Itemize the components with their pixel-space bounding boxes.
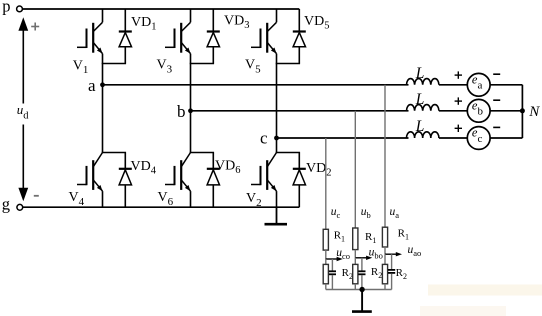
label VD3 bbox=[224, 13, 249, 31]
label V4 bbox=[69, 190, 85, 208]
wire: phase c to source bbox=[439, 137, 467, 139]
capacitor (phase c filter) bbox=[329, 259, 336, 290]
label L (phase b) bbox=[415, 91, 425, 108]
wire: phase b sense tap bbox=[354, 111, 356, 229]
label + (source eb) bbox=[455, 97, 462, 104]
wire: R1 to junction (phase c) bbox=[325, 250, 327, 259]
svg-text:R2: R2 bbox=[396, 267, 407, 281]
source ea (back-EMF) bbox=[467, 73, 490, 96]
label V6 bbox=[158, 190, 174, 208]
transistor V1 (upper IGBT leg a) bbox=[77, 9, 103, 64]
label R1 (phase b) bbox=[365, 231, 376, 245]
wire: source eb to neutral bus bbox=[490, 110, 522, 112]
svg-text:p: p bbox=[2, 0, 10, 15]
wire: phase b line bbox=[191, 110, 409, 112]
svg-text:V4: V4 bbox=[69, 190, 85, 208]
node c junction bbox=[274, 136, 279, 141]
label u_c bbox=[331, 206, 341, 220]
wire: emitter-anode link upper leg a bbox=[102, 63, 126, 65]
wire: phase a sense tap bbox=[384, 85, 386, 229]
resistor R2 (phase c lower divider) bbox=[323, 259, 328, 290]
inductor L (phase b) bbox=[407, 105, 439, 111]
wire: collector-cathode link lower leg c bbox=[276, 152, 300, 154]
svg-text:N: N bbox=[528, 104, 540, 120]
label + (source ea) bbox=[455, 71, 462, 78]
transistor V4 (lower IGBT leg a) bbox=[77, 153, 103, 208]
wire: phase b to source bbox=[439, 110, 467, 112]
label u_bo bbox=[369, 247, 383, 261]
ground (DC bus negative) bbox=[265, 207, 288, 224]
svg-text:VD6: VD6 bbox=[215, 158, 240, 176]
label R2 (phase b) bbox=[371, 266, 382, 280]
wire: leg b vertical (phase column) bbox=[190, 64, 192, 153]
svg-text:ub: ub bbox=[361, 206, 371, 220]
label N bbox=[528, 104, 540, 120]
svg-text:R1: R1 bbox=[334, 230, 345, 244]
capacitor (phase a filter) bbox=[388, 254, 395, 289]
label VD1 bbox=[131, 15, 156, 33]
wire: emitter-anode link upper leg b bbox=[190, 63, 214, 65]
label VD4 bbox=[131, 159, 157, 177]
terminal g circle bbox=[17, 204, 23, 210]
transistor V5 (upper IGBT leg c) bbox=[251, 9, 277, 64]
wire: collector-cathode link lower leg b bbox=[190, 152, 214, 154]
diode VD5 (upper freewheel leg c) bbox=[293, 9, 306, 64]
wire: phase a to source bbox=[439, 84, 467, 86]
wire: top DC rail (+) bbox=[22, 8, 299, 10]
svg-text:g: g bbox=[2, 195, 10, 214]
diode VD3 (upper freewheel leg b) bbox=[207, 9, 220, 64]
label + (dc bus plus) bbox=[31, 23, 39, 31]
wire: source ea to neutral bus bbox=[490, 84, 522, 86]
terminal p label bbox=[2, 0, 10, 15]
label R1 (phase a) bbox=[398, 228, 409, 242]
svg-text:uco: uco bbox=[336, 247, 350, 261]
svg-text:L: L bbox=[415, 65, 425, 82]
svg-text:R2: R2 bbox=[371, 266, 382, 280]
resistor R1 (phase b upper divider) bbox=[353, 228, 358, 250]
capacitor (phase b filter) bbox=[358, 258, 365, 290]
label - (source ec) bbox=[493, 126, 500, 128]
source ec (back-EMF) bbox=[467, 127, 490, 150]
svg-text:VD3: VD3 bbox=[224, 13, 249, 31]
wire: phase c line bbox=[277, 137, 409, 139]
wire: R1 to junction (phase b) bbox=[354, 250, 356, 258]
wire: leg a vertical (phase column) bbox=[102, 64, 104, 153]
label V1 bbox=[73, 58, 89, 76]
voltage arrow u_ao bbox=[385, 252, 402, 256]
wire: R1 to junction (phase a) bbox=[384, 247, 386, 254]
source eb (back-EMF) bbox=[467, 99, 490, 122]
svg-text:c: c bbox=[260, 129, 268, 148]
svg-text:ua: ua bbox=[390, 206, 400, 220]
resistor R2 (phase a lower divider) bbox=[382, 254, 387, 289]
node: divider common junction bbox=[359, 287, 364, 292]
label R1 (phase c) bbox=[334, 230, 345, 244]
transistor V3 (upper IGBT leg b) bbox=[165, 9, 191, 64]
node c label bbox=[260, 129, 268, 148]
diode VD4 (lower freewheel leg a) bbox=[119, 153, 132, 208]
label L (phase a) bbox=[415, 65, 425, 82]
label VD5 bbox=[304, 14, 329, 32]
resistor R1 (phase a upper divider) bbox=[382, 227, 387, 247]
svg-text:R2: R2 bbox=[342, 267, 353, 281]
resistor R1 (phase c upper divider) bbox=[323, 229, 328, 250]
ground (signal common) bbox=[352, 290, 372, 312]
resistor R2 (phase b lower divider) bbox=[353, 258, 358, 290]
wire: neutral bus bbox=[521, 85, 523, 138]
label u_d bbox=[17, 102, 30, 121]
svg-text:VD5: VD5 bbox=[304, 14, 329, 32]
svg-text:V1: V1 bbox=[73, 58, 89, 76]
svg-text:V2: V2 bbox=[246, 191, 262, 209]
transistor V6 (lower IGBT leg b) bbox=[165, 153, 191, 208]
label V3 bbox=[157, 58, 173, 76]
wire: source ec to neutral bus bbox=[490, 137, 522, 139]
label V2 bbox=[246, 191, 262, 209]
svg-text:b: b bbox=[177, 102, 186, 121]
svg-text:L: L bbox=[415, 91, 425, 108]
voltage arrow u_d bbox=[18, 17, 28, 201]
terminal g label bbox=[2, 195, 10, 214]
svg-text:R1: R1 bbox=[398, 228, 409, 242]
label VD6 bbox=[215, 158, 240, 176]
diode VD6 (lower freewheel leg b) bbox=[207, 153, 220, 208]
wire: collector-cathode link lower leg a bbox=[102, 152, 126, 154]
transistor V2 (lower IGBT leg c) bbox=[251, 153, 277, 208]
svg-text:VD2: VD2 bbox=[306, 161, 331, 179]
label R2 (phase c) bbox=[342, 267, 353, 281]
inductor L (phase c) bbox=[407, 132, 439, 138]
svg-text:V5: V5 bbox=[245, 58, 261, 76]
svg-text:VD4: VD4 bbox=[131, 159, 157, 177]
label u_ao bbox=[408, 244, 422, 258]
wire: phase a line bbox=[103, 84, 409, 86]
wire: emitter-anode link upper leg c bbox=[276, 63, 300, 65]
label - (source eb) bbox=[493, 99, 500, 101]
wire: phase c sense tap bbox=[325, 138, 327, 229]
terminal p circle bbox=[17, 6, 23, 12]
label VD2 bbox=[306, 161, 331, 179]
label - (dc bus minus) bbox=[34, 195, 39, 197]
node a label bbox=[88, 76, 96, 95]
label - (source ea) bbox=[493, 73, 500, 75]
svg-text:VD1: VD1 bbox=[131, 15, 156, 33]
voltage arrow u_co bbox=[326, 257, 343, 261]
node a junction bbox=[100, 82, 105, 87]
svg-text:L: L bbox=[415, 118, 425, 135]
node N junction bbox=[520, 108, 525, 113]
label L (phase c) bbox=[415, 118, 425, 135]
label u_a bbox=[390, 206, 400, 220]
wire: leg c vertical (phase column) bbox=[276, 64, 278, 153]
node b label bbox=[177, 102, 186, 121]
svg-text:uc: uc bbox=[331, 206, 341, 220]
label u_co bbox=[336, 247, 350, 261]
diode VD2 (lower freewheel leg c) bbox=[293, 153, 306, 208]
label ec bbox=[472, 126, 483, 145]
label ea bbox=[472, 72, 483, 91]
node b junction bbox=[188, 108, 193, 113]
svg-text:uao: uao bbox=[408, 244, 422, 258]
label V5 bbox=[245, 58, 261, 76]
svg-text:V6: V6 bbox=[158, 190, 174, 208]
svg-text:R1: R1 bbox=[365, 231, 376, 245]
svg-text:V3: V3 bbox=[157, 58, 173, 76]
label eb bbox=[472, 98, 484, 117]
voltage arrow u_bo bbox=[355, 256, 372, 260]
inductor L (phase a) bbox=[407, 79, 439, 85]
label R2 (phase a) bbox=[396, 267, 407, 281]
svg-text:a: a bbox=[88, 76, 96, 95]
label + (source ec) bbox=[455, 125, 462, 132]
wire: bottom DC rail (-) bbox=[23, 206, 300, 208]
label u_b bbox=[361, 206, 371, 220]
wire: divider common rail bbox=[326, 289, 392, 291]
diode VD1 (upper freewheel leg a) bbox=[119, 9, 132, 64]
svg-text:ubo: ubo bbox=[369, 247, 383, 261]
svg-text:ud: ud bbox=[17, 102, 30, 121]
